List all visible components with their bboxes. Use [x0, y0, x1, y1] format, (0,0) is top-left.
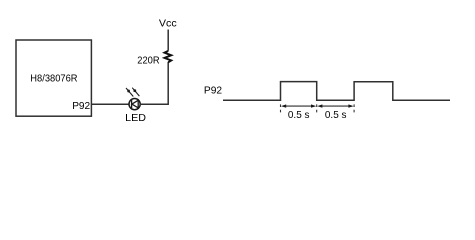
svg-text:0.5 s: 0.5 s [288, 109, 310, 121]
wire LED cathode to resistor node [140, 103, 169, 105]
svg-text:P92: P92 [204, 85, 222, 97]
waveform P92 square wave [223, 82, 450, 101]
LED light emission arrow 2 [132, 88, 139, 96]
tick mark dashed at falling edge [316, 104, 318, 113]
wire P92 to LED anode [92, 103, 130, 105]
tick mark dashed at first rising edge [280, 104, 282, 113]
wire resistor top to Vcc [167, 30, 169, 51]
svg-text:220R: 220R [137, 55, 160, 67]
svg-text:LED: LED [125, 112, 146, 124]
svg-text:P92: P92 [72, 100, 90, 112]
svg-text:0.5 s: 0.5 s [325, 109, 347, 121]
tick mark dashed at second rising edge [353, 104, 355, 113]
wire node to resistor bottom [167, 62, 169, 105]
LED light emission arrow 1 [126, 88, 133, 97]
LED D1 [129, 99, 140, 110]
IC U1 box H8/38076R [16, 40, 91, 116]
resistor R1 zigzag [165, 51, 172, 62]
svg-text:Vcc: Vcc [159, 18, 177, 30]
dimension arrow 0.5 s first interval [281, 104, 316, 107]
svg-text:H8/38076R: H8/38076R [30, 73, 78, 85]
dimension arrow 0.5 s second interval [317, 104, 353, 107]
